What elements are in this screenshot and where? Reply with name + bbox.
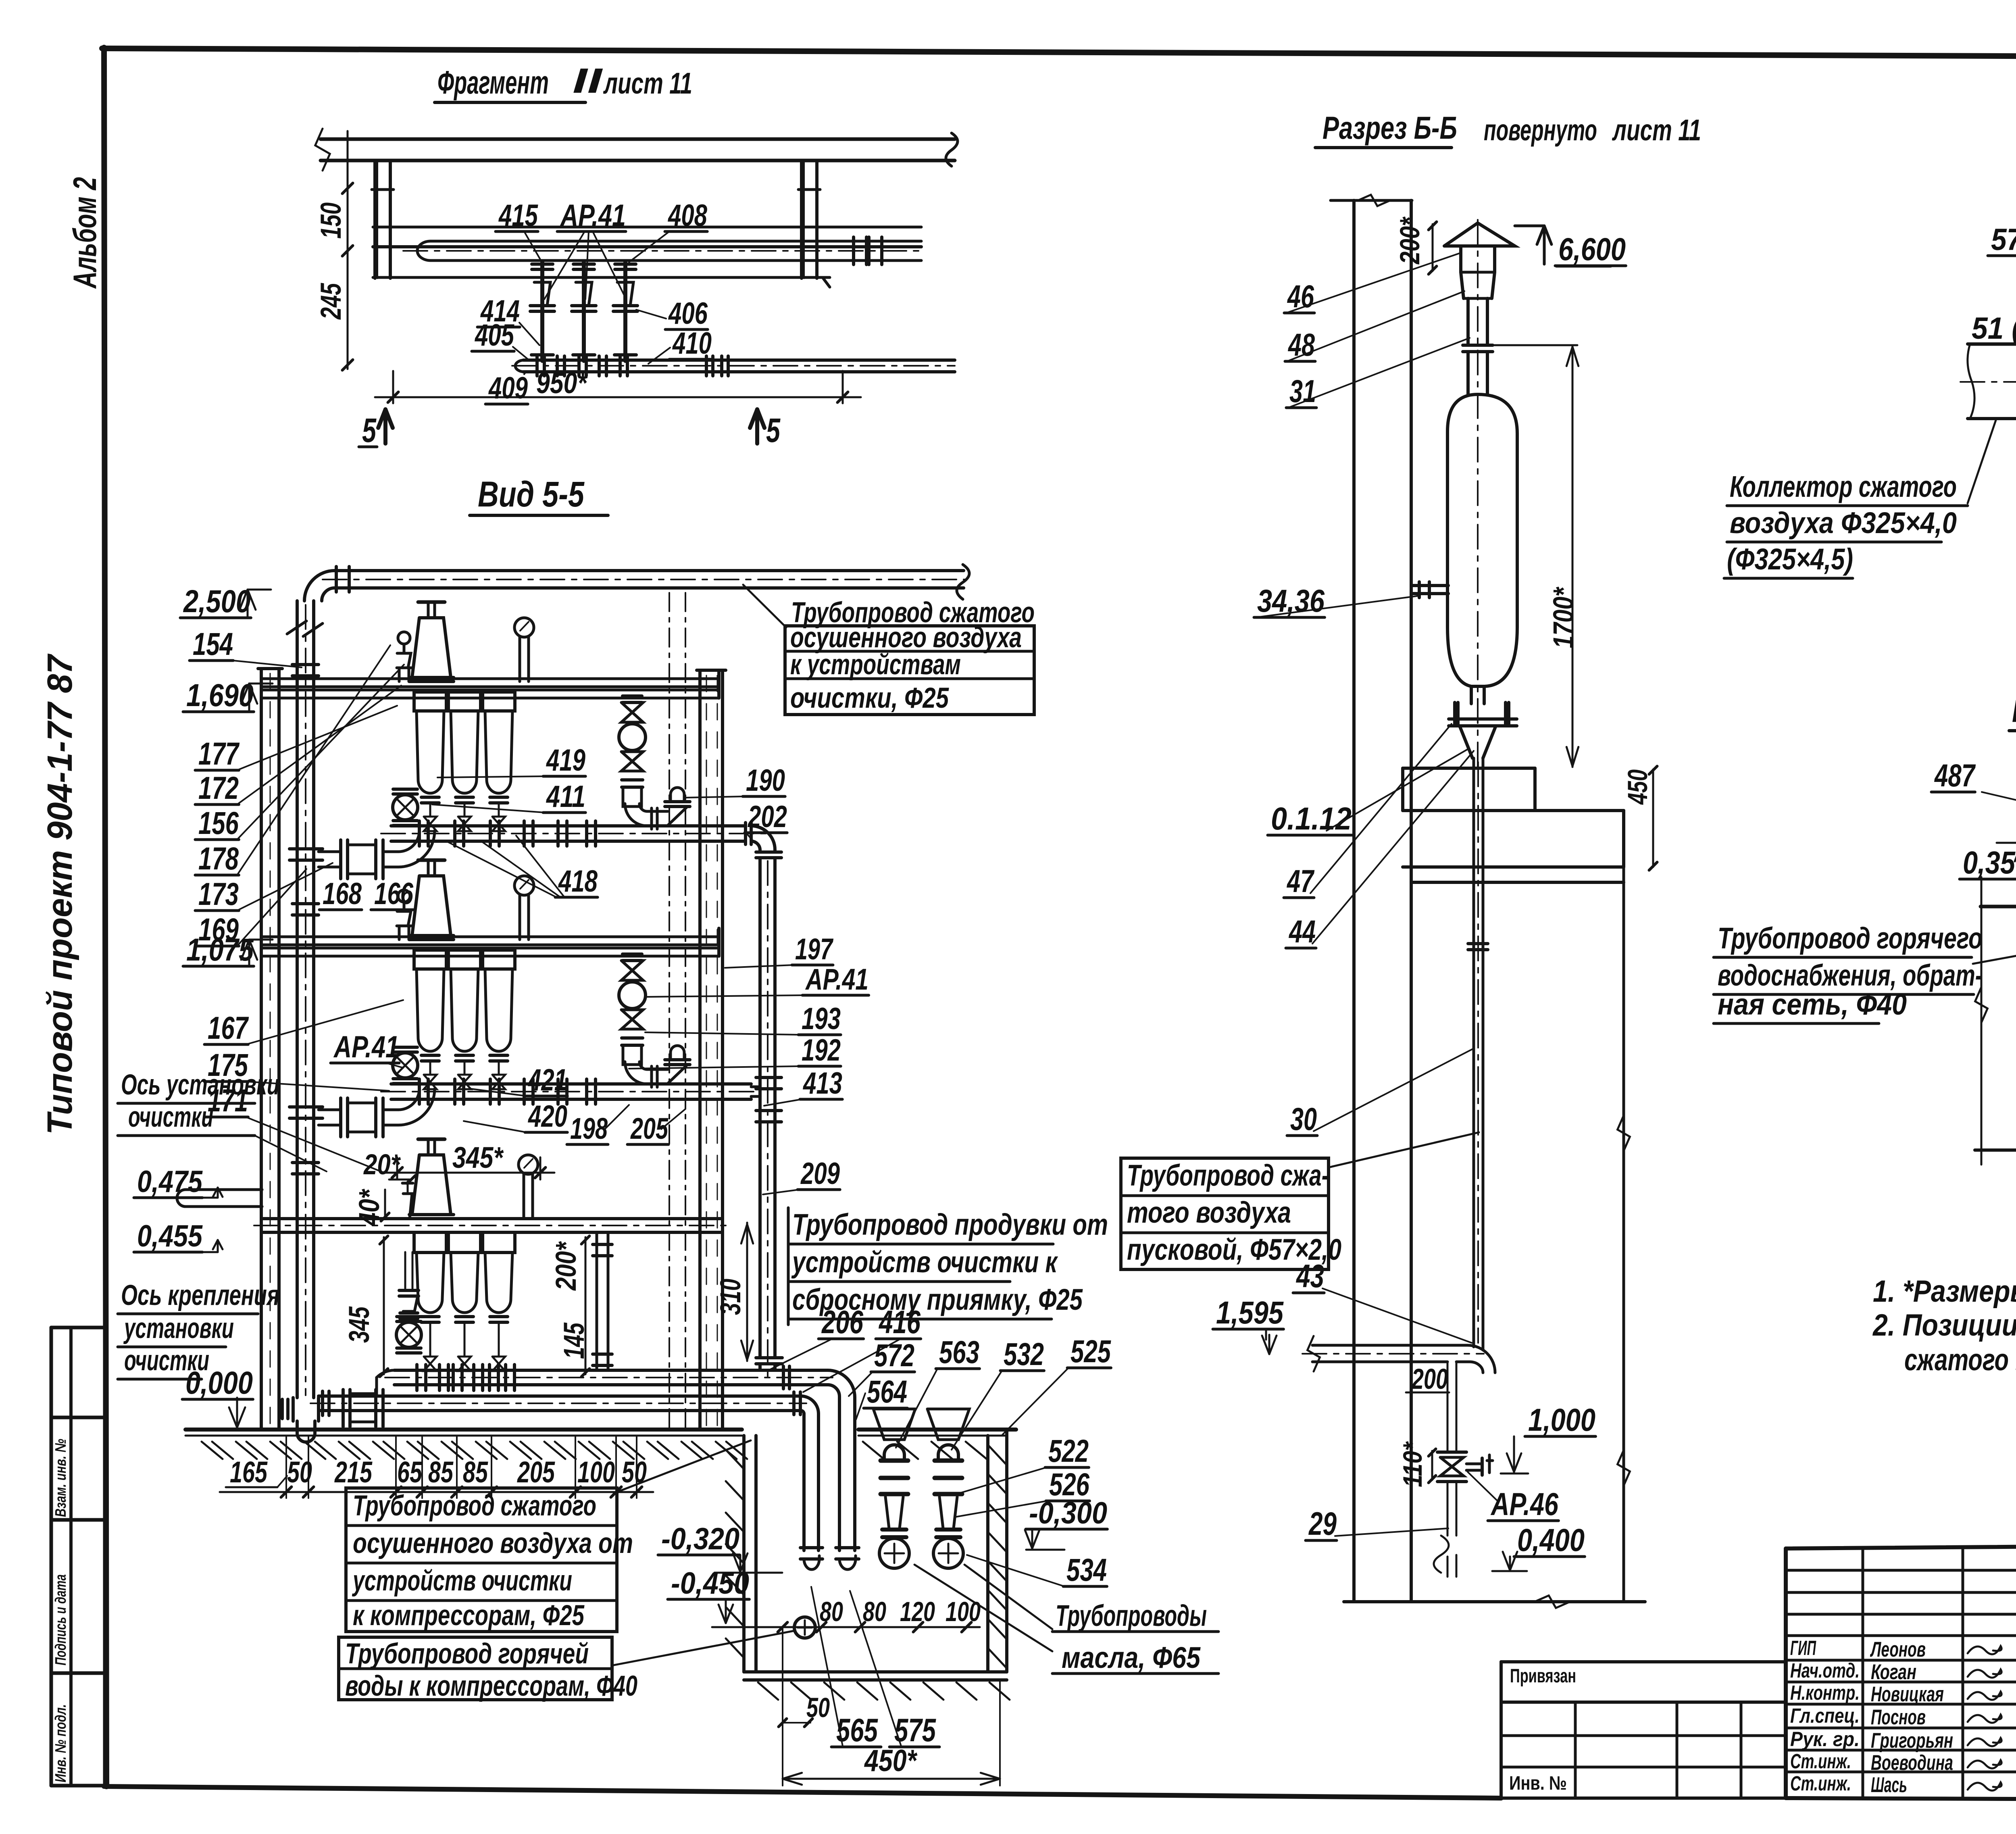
note box starting air pipe [1121,1158,1329,1269]
tier2 manifold flanges [418,1079,421,1104]
pit bottom hatching [758,1682,778,1700]
svg-text:156: 156 [198,805,239,841]
beam top chord [321,138,955,141]
elbow pipe B [801,1396,818,1551]
svg-text:406: 406 [668,296,708,331]
svg-text:ГИП: ГИП [1790,1636,1816,1659]
foundation right vertical line [1622,867,1625,1602]
svg-text:установки: установки [123,1313,234,1344]
svg-text:31: 31 [1289,373,1316,409]
svg-text:АР.41: АР.41 [560,198,626,233]
tier3 ball valve [396,1322,421,1347]
tier2 filter bells [414,950,446,969]
svg-text:Ось установки: Ось установки [121,1069,279,1101]
svg-text:418: 418 [558,864,598,898]
svg-text:168: 168 [323,877,362,911]
svg-text:173: 173 [198,876,239,912]
elbow pipe A from tier3 header [828,1370,855,1551]
svg-text:0,475: 0,475 [137,1165,203,1199]
svg-text:Коллектор сжатого: Коллектор сжатого [1730,470,1957,503]
svg-text:178: 178 [198,840,239,876]
svg-text:0.1.12: 0.1.12 [1271,800,1352,836]
upper run flange pair near riser [782,1366,785,1389]
svg-text:ная сеть, Ф40: ная сеть, Ф40 [1718,988,1907,1021]
left riser bottom cap [297,1421,315,1442]
leader from top pipe to note box [743,585,786,627]
tier1 pressure gauge [514,618,534,637]
svg-text:Трубопровод горячей: Трубопровод горячей [345,1638,589,1670]
svg-text:950*: 950* [536,366,588,400]
signature scribbles [1968,1646,2001,1654]
tier1 shelf [261,677,719,680]
svg-text:Воеводина: Воеводина [1871,1751,1953,1775]
svg-text:190: 190 [746,763,785,798]
svg-text:Коган: Коган [1871,1660,1916,1684]
ground line 9-9 [1981,905,2016,909]
svg-text:Поснов: Поснов [1871,1705,1926,1729]
svg-text:50: 50 [287,1455,312,1489]
wall line right [1410,200,1413,1602]
vessel neck to flange [1470,686,1473,704]
svg-text:воды к компрессорам, Ф40: воды к компрессорам, Ф40 [345,1670,637,1702]
valve 3 under rail [623,261,627,361]
svg-text:Ст.инж.: Ст.инж. [1790,1772,1851,1795]
svg-text:Альбом 2: Альбом 2 [67,177,103,289]
svg-text:345*: 345* [452,1141,504,1174]
svg-text:532: 532 [1004,1336,1044,1372]
svg-text:-0,300: -0,300 [1029,1496,1107,1530]
stack pipe upper [1466,298,1470,345]
svg-text:200*: 200* [1394,216,1425,265]
svg-text:405: 405 [474,318,514,352]
tier2 regulator [418,859,445,862]
frame post right [698,670,702,1430]
left riser pipe [296,601,299,1398]
svg-text:Трубопроводы: Трубопроводы [1056,1599,1207,1632]
pipe flange small [1468,942,1488,945]
svg-text:29: 29 [1308,1506,1337,1542]
svg-text:120: 120 [900,1596,935,1627]
umbrella cap [1444,223,1515,246]
tier3 manifold flanges [415,1365,419,1390]
frame post left [260,669,263,1430]
svg-text:Инв. №: Инв. № [1509,1773,1567,1794]
left dimension line 150/245 [347,131,349,369]
flange with bolts [1453,702,1456,726]
collector vessel [1968,342,2016,346]
lower run flange pair near elbow [792,1392,796,1415]
stack pipe below flange [1466,352,1470,394]
svg-text:АР.46: АР.46 [1490,1486,1558,1522]
tier1 right elbow down [751,826,775,852]
stack flange pair [1463,344,1493,347]
svg-text:310: 310 [715,1279,747,1315]
tier2 relief valve [398,890,410,902]
svg-text:Инв. № подл.: Инв. № подл. [52,1704,69,1782]
pit wall extension line [782,1627,783,1786]
pipe bottom elbow to left [1312,1345,1495,1373]
svg-text:563: 563 [939,1334,979,1370]
svg-text:415: 415 [498,198,538,233]
svg-text:80: 80 [863,1596,886,1627]
ground line right segment [858,1428,1016,1432]
svg-text:очистки, Ф25: очистки, Ф25 [790,682,949,714]
cap neck [1459,246,1462,272]
svg-text:420: 420 [527,1099,567,1134]
riser bottom flange plate [756,1356,782,1359]
svg-text:2. Позиции и отметки в ско: 2. Позиции и отметки в скобках даны для … [1872,1308,2016,1342]
pit right wall hatching [989,1446,1006,1464]
tier3 manifold left elbow [377,1370,394,1396]
svg-text:АР.41: АР.41 [805,963,868,996]
svg-text:525: 525 [1070,1333,1111,1369]
svg-text:водоснабжения, обрат-: водоснабжения, обрат- [1718,959,1983,992]
tier1 filter bells [414,692,446,711]
bottom structural line [1344,1600,1645,1603]
svg-text:409: 409 [488,371,528,405]
svg-text:410: 410 [672,326,712,361]
svg-text:воздуха Ф325×4,0: воздуха Ф325×4,0 [1730,506,1957,540]
tier1 regulator [418,600,445,604]
svg-text:215: 215 [334,1455,373,1489]
dimension chain below ground [377,1491,653,1493]
blowdown pipe lower [1447,1482,1449,1536]
lower run valve box [342,1390,345,1427]
bottom manifold pipe [515,360,524,372]
svg-text:110*: 110* [1397,1441,1427,1487]
svg-text:65: 65 [397,1455,423,1489]
main pipe into elbow [1472,758,1475,1347]
svg-text:сжатого воздуха потребителю.: сжатого воздуха потребителю. [1904,1343,2016,1377]
tier1 manifold pipe [391,824,746,827]
tier3 filter bells [414,1232,446,1253]
svg-text:205: 205 [516,1455,555,1489]
svg-text:0,455: 0,455 [137,1219,203,1253]
margin stamp boxes column [50,1328,53,1786]
riser 403/184 [758,858,762,1358]
svg-text:Разрез 9-9: Разрез 9-9 [2012,693,2016,729]
tier2 pressure gauge [514,876,534,895]
svg-text:413: 413 [802,1066,842,1100]
left riser break marks [287,621,306,634]
section mark 5 right [755,409,759,444]
svg-text:172: 172 [198,770,239,806]
pit left wall [742,1436,746,1672]
svg-text:II: II [573,61,603,100]
svg-text:осушенного воздуха от: осушенного воздуха от [353,1528,633,1559]
pit bottom 9-9 [1975,1148,2016,1152]
svg-text:50: 50 [622,1455,647,1489]
svg-text:408: 408 [667,198,707,233]
svg-text:5: 5 [362,411,377,449]
pit bottom [744,1670,1007,1674]
svg-text:100: 100 [577,1455,615,1489]
tier2 tee side stub into riser [751,1086,760,1088]
svg-text:202: 202 [747,800,787,834]
svg-text:Трубопровод сжа-: Трубопровод сжа- [1127,1159,1329,1192]
branch box 168/166 [289,847,323,850]
svg-text:564: 564 [867,1373,907,1409]
manifold flange pairs [535,356,539,376]
tier3 left drain stack [404,1252,406,1288]
svg-text:Трубопровод горячего: Трубопровод горячего [1718,921,1983,955]
sheet frame bottom border [104,1786,1501,1798]
valve 2 under rail [582,261,586,361]
top pipe elevation 2.500 [335,569,964,572]
svg-text:Трубопровод продувки от: Трубопровод продувки от [792,1208,1108,1241]
svg-text:154: 154 [193,626,233,662]
title block name rows [1786,1634,2016,1637]
sheet frame top border [102,48,2016,58]
svg-text:197: 197 [795,932,834,966]
left riser flange pairs [292,663,319,666]
rail upper line [373,226,921,229]
svg-text:Ст.инж.: Ст.инж. [1790,1750,1851,1773]
svg-text:Н.контр.: Н.контр. [1790,1681,1860,1704]
svg-text:145: 145 [558,1322,590,1359]
svg-text:85: 85 [463,1455,488,1489]
pipe with end cap on rail [417,241,431,261]
svg-text:Трубопровод сжатого: Трубопровод сжатого [353,1490,596,1522]
svg-text:150: 150 [315,202,347,239]
svg-text:0,000: 0,000 [185,1365,253,1401]
pipe below funnel [1472,758,1475,1332]
dimension 950* [392,371,394,403]
riser 403 flange below elbow [756,850,781,854]
title block outer [1786,1542,2016,1548]
svg-text:1. *Размеры для справок.: 1. *Размеры для справок. [1873,1274,2016,1309]
lower chord [373,276,830,279]
left stub pipe pair [185,1188,262,1191]
tier1 manifold flanges [418,821,421,846]
svg-text:Подпись и дата: Подпись и дата [52,1574,69,1665]
left extension line 9-9 [1981,877,1983,1165]
svg-text:Фрагмент: Фрагмент [437,65,549,101]
label 165 underline [226,1486,277,1488]
svg-text:209: 209 [800,1157,840,1191]
tier2 shelf [261,936,719,938]
hanger column right [800,161,803,278]
svg-text:6,600: 6,600 [1558,231,1626,267]
svg-text:1,075: 1,075 [186,932,254,967]
svg-text:200*: 200* [550,1241,582,1291]
tier1 ball valve [393,795,418,820]
valve 1 under rail [540,261,544,361]
svg-text:50: 50 [806,1692,830,1723]
svg-text:Григорьян: Григорьян [1871,1729,1953,1753]
svg-text:Леонов: Леонов [1870,1638,1926,1661]
wall top tick [1331,199,1412,202]
title block thin rows [1786,1569,2016,1572]
svg-text:522: 522 [1048,1433,1089,1469]
svg-text:177: 177 [198,736,240,771]
tier1 pipe flange pair at elbow [744,823,747,844]
svg-text:487: 487 [1934,757,1976,793]
top pipe left elbow [304,571,335,601]
svg-text:Новицкая: Новицкая [1871,1682,1944,1706]
tier2 branch box [289,1105,323,1109]
pit left wall hatching [726,1450,744,1469]
svg-text:лист 11: лист 11 [1612,113,1701,147]
svg-text:572: 572 [874,1337,914,1373]
svg-text:Разрез Б-Б: Разрез Б-Б [1322,110,1457,146]
valve АР.46 on blowdown [1437,1451,1466,1454]
tier3 pressure gauge [519,1155,538,1174]
tier1 hanging valve string АР41 [623,694,642,698]
svg-text:193: 193 [802,1002,841,1036]
svg-text:534: 534 [1066,1552,1107,1588]
tier2 ball valve [393,1053,418,1078]
svg-text:Ось крепления: Ось крепления [121,1280,279,1311]
svg-text:Вид 5-5: Вид 5-5 [478,474,585,514]
hanger column left [373,161,377,278]
ground hatching left [202,1442,223,1459]
svg-text:АР.41: АР.41 [333,1030,399,1064]
svg-text:Нач.отд.: Нач.отд. [1790,1659,1860,1682]
svg-text:416: 416 [878,1304,921,1340]
svg-text:80: 80 [820,1596,843,1627]
lower run flange discs [321,1391,324,1415]
axis dash lines near right post [669,593,670,1428]
svg-text:1,000: 1,000 [1528,1402,1595,1438]
svg-text:1,595: 1,595 [1216,1294,1284,1330]
small circle hot water pipe [794,1617,815,1638]
svg-text:повернуто: повернуто [1484,113,1597,147]
svg-text:165: 165 [230,1455,268,1489]
pedestal [1403,767,1535,770]
svg-text:Привязан: Привязан [1510,1665,1576,1687]
rail lower line [373,245,921,248]
svg-text:Взам. инв. №: Взам. инв. № [52,1439,69,1517]
left riser bottom tee [292,1398,295,1421]
tier3 small side valve [403,1194,412,1219]
riser tee flanges tier2 [756,1076,781,1079]
svg-text:Шась: Шась [1871,1773,1907,1797]
svg-text:419: 419 [546,743,585,777]
svg-text:51 (94): 51 (94) [1972,311,2016,346]
tier3 regulator [418,1138,445,1141]
svg-text:устройств очистки к: устройств очистки к [791,1245,1058,1279]
svg-text:лист 11: лист 11 [603,67,692,100]
privyazan box [1501,1660,1786,1663]
tier1 relief valve [398,632,410,644]
svg-text:421: 421 [527,1063,567,1097]
top pipe flange pair near left elbow [335,567,338,592]
svg-text:Типовой проект 904-1-77 87: Типовой проект 904-1-77 87 [40,653,79,1135]
funnel reducer [1460,726,1472,758]
svg-text:166: 166 [374,877,414,911]
svg-text:Гл.спец.: Гл.спец. [1790,1704,1860,1727]
pit candle 2 [927,1409,969,1440]
svg-text:к устройствам: к устройствам [790,649,961,681]
svg-text:200: 200 [1411,1363,1448,1395]
svg-text:450*: 450* [864,1744,917,1778]
tier3 lower run from left tee [319,1394,801,1398]
note box pipe dried air to compressors [346,1488,617,1632]
svg-text:167: 167 [208,1010,249,1046]
ground line left segment [185,1428,742,1432]
svg-text:44: 44 [1288,913,1316,949]
svg-text:198: 198 [570,1112,608,1145]
svg-text:устройств очистки: устройств очистки [352,1565,572,1597]
svg-text:345: 345 [344,1306,375,1343]
svg-text:57 (107): 57 (107) [1991,223,2016,257]
pit right wall [986,1436,989,1672]
svg-text:0,350: 0,350 [1963,844,2016,880]
svg-text:245: 245 [315,283,347,320]
top pipe right break [957,565,969,599]
pit pipe A lower part [836,1546,859,1549]
tier3 pipe run [263,1217,722,1220]
svg-text:206: 206 [821,1304,863,1340]
svg-text:1700*: 1700* [1548,586,1580,648]
svg-text:100: 100 [946,1596,981,1627]
tier2 manifold pipe [391,1082,751,1086]
pipe flange pair right [852,237,855,265]
svg-text:5: 5 [766,411,781,449]
svg-text:-0,320: -0,320 [661,1522,739,1556]
svg-text:очистки: очистки [128,1101,213,1133]
beam right break [946,133,958,166]
svg-text:(Ф325×4,5): (Ф325×4,5) [1727,542,1853,576]
tier3 manifold header [394,1369,828,1372]
beam left break [315,129,330,171]
pit pipe B lower part [800,1546,823,1549]
stack centerline [1477,220,1479,768]
svg-text:48: 48 [1287,327,1315,363]
note box hot water to compressors [339,1637,612,1700]
svg-text:пусковой, Ф57×2,0: пусковой, Ф57×2,0 [1127,1233,1341,1266]
pit candle 1 [873,1409,915,1440]
svg-text:масла, Ф65: масла, Ф65 [1062,1641,1201,1674]
svg-text:к компрессорам, Ф25: к компрессорам, Ф25 [353,1600,585,1632]
wall line left [1352,200,1356,1602]
svg-text:-0,450: -0,450 [671,1566,749,1601]
svg-text:того воздуха: того воздуха [1127,1196,1291,1229]
title block left table verticals [1862,1548,1864,1798]
blowdown thin pipe upper [1447,1362,1449,1452]
sheet frame left border [104,48,106,1786]
tier2 hanging valve string АР41 [623,952,642,956]
tier3 right drop pipe [596,1232,598,1370]
vessel support bracket [1411,584,1448,587]
svg-text:2,500: 2,500 [183,583,251,619]
blowdown pipe bottom break [1434,1536,1449,1573]
svg-text:85: 85 [428,1455,454,1489]
vessel bottle [1447,394,1517,686]
ground hatching right [863,1442,884,1459]
svg-text:192: 192 [802,1033,841,1067]
svg-text:Рук. гр.: Рук. гр. [1790,1728,1860,1751]
svg-text:0,400: 0,400 [1517,1522,1585,1558]
svg-text:411: 411 [546,779,585,814]
